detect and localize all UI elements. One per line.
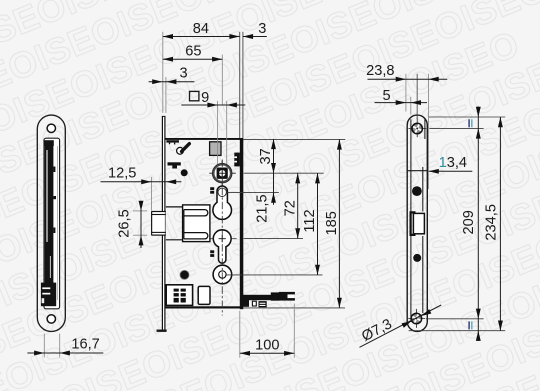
blade highlight small: [50, 256, 51, 278]
svg-text:112: 112: [302, 209, 318, 232]
arrow 185 top: [337, 139, 342, 149]
ext line faceplate left: [162, 32, 164, 113]
ref line donut center: [226, 274, 322, 276]
dim line 72: [297, 173, 299, 238]
arrow II bottom lower: [476, 331, 481, 341]
arrow 234,5 top: [498, 117, 503, 127]
arrow 16,7 right: [60, 351, 70, 356]
arrow 84 left: [163, 34, 173, 39]
ext line 16,7 right: [59, 334, 61, 358]
dim line 16,7: [27, 352, 103, 354]
top screw phillips cross: [411, 123, 423, 135]
svg-text:209: 209: [461, 210, 477, 234]
top screw crosshair h: [408, 128, 426, 130]
sub-bar tick 2: [174, 143, 175, 145]
ref line plate top: [429, 116, 506, 118]
bottom screw center dot: [415, 318, 417, 320]
ext line cable end: [293, 304, 295, 358]
arrow II top lower / 209 top: [476, 128, 481, 138]
lever bar: [182, 144, 190, 152]
ext line case back right: [242, 32, 244, 138]
euro centerline left segment: [209, 238, 214, 240]
svg-text:16,7: 16,7: [71, 336, 99, 352]
plate dot 2: [413, 254, 421, 262]
dim line 3 top: [243, 36, 267, 38]
black dot (spring pivot): [181, 169, 188, 176]
case top sub-bar: [166, 140, 179, 142]
svg-text:234,5: 234,5: [484, 204, 500, 241]
T-shape stem: [172, 166, 177, 169]
euro center cross v: [221, 235, 223, 242]
cutout bracket: [411, 212, 416, 235]
follower hub knurl ring: [214, 165, 231, 182]
dim line 84: [163, 36, 240, 38]
top screw head: [412, 123, 422, 133]
svg-text:5: 5: [382, 88, 390, 104]
T-shape bar: [168, 162, 181, 165]
svg-text:9: 9: [201, 90, 209, 106]
dim line 3 left: [149, 81, 195, 83]
svg-text:13,4: 13,4: [439, 155, 467, 171]
arrow 84 right: [229, 34, 239, 39]
left bottom screw hole: [47, 315, 55, 323]
connector slit 2: [42, 293, 50, 295]
arrow 112 bottom: [315, 265, 320, 275]
arrow 72 bottom: [295, 228, 300, 238]
ext line 16,7 left: [43, 334, 45, 358]
plate dot 1: [412, 186, 422, 196]
case bottom edge: [165, 306, 243, 308]
arrow 12,5 left: [141, 179, 151, 184]
svg-text:26,5: 26,5: [117, 209, 133, 237]
ext line case corner: [239, 311, 241, 358]
dim line 209 column: [477, 107, 479, 342]
dim line 12,5: [101, 181, 182, 183]
slot inner thin line: [57, 146, 59, 300]
arrow 209 bottom: [476, 309, 481, 319]
svg-text:84: 84: [193, 21, 209, 37]
ref line case bottom: [244, 307, 345, 309]
drawing layer: [27, 21, 505, 358]
faceplate front line: [161, 116, 163, 331]
inner rim line left: [410, 119, 412, 322]
arrow 5 left: [396, 100, 406, 105]
arrow 65 left: [163, 57, 173, 62]
ext line hub center top: [221, 55, 223, 105]
arrow 72 top: [295, 173, 300, 183]
blade nub 1: [53, 167, 55, 173]
euro centerline right segment: [231, 238, 236, 240]
faceplate top cap: [162, 115, 166, 117]
arrow 3 top: [243, 34, 253, 39]
follower center cross h: [218, 172, 226, 174]
arrow 23,8 left: [396, 77, 406, 82]
blade nub 3: [53, 228, 55, 234]
svg-text:72: 72: [282, 200, 298, 216]
bottom screw head: [411, 313, 421, 323]
arrow 12,5 right: [166, 179, 176, 184]
latch head top line 1: [152, 211, 166, 213]
pin pair B: [210, 250, 214, 253]
arrow 21,5 bottom (outside): [271, 193, 276, 203]
bottom donut hole: [213, 265, 232, 284]
inner rim line right: [422, 167, 424, 212]
column centerline: [221, 160, 223, 316]
dim line 26,5: [140, 203, 142, 248]
follower center hole: [219, 170, 225, 176]
dim line 65: [163, 58, 223, 60]
comb slit 1: [234, 156, 237, 158]
right faceplate outline: [407, 115, 427, 331]
text block glyphs col1: [174, 289, 179, 292]
arrow 26,5 top: [139, 201, 144, 211]
svg-text:21,5: 21,5: [254, 194, 270, 222]
svg-text:23,8: 23,8: [366, 63, 394, 79]
comb slit 2: [234, 161, 237, 163]
arrow dia bottom-left: [402, 319, 413, 328]
arrow 65 right: [212, 57, 222, 62]
ext line plate right: [428, 74, 430, 189]
svg-text:3: 3: [179, 66, 187, 82]
case interior text block: [166, 285, 192, 306]
ref line top screw center: [429, 127, 483, 129]
pin pair A: [210, 187, 214, 190]
ref line bottom screw center: [426, 318, 484, 320]
ext line case back left: [239, 32, 241, 138]
left inner slot: [44, 138, 60, 309]
cutout inner rect: [413, 213, 424, 233]
dim line 13,4: [429, 170, 473, 172]
ext line latch top: [133, 210, 147, 212]
fork slot 1: [184, 210, 208, 216]
faceplate back line: [164, 116, 166, 331]
blade highlight streak: [46, 150, 47, 242]
arrow 37 top: [271, 139, 276, 149]
arrow 13,4: [429, 169, 439, 174]
follower hub outer ring: [213, 164, 232, 183]
ext line sq9 left: [217, 101, 219, 164]
ref line hub center: [244, 172, 324, 174]
latch fork outer box: [183, 205, 210, 242]
left faceplate outline: [37, 115, 65, 331]
joint line: [407, 170, 428, 172]
case back wall (thick): [240, 138, 244, 309]
svg-text:12,5: 12,5: [108, 166, 136, 182]
terminal notch: [288, 294, 295, 298]
ext line latch bottom: [133, 234, 147, 236]
text block glyphs col2: [181, 289, 186, 292]
latch shaft top line: [166, 206, 183, 208]
ext line rim: [410, 97, 412, 115]
left top screw hole: [47, 124, 55, 132]
lower cable white square: [252, 301, 256, 306]
arrow 112 top: [315, 173, 320, 183]
hub crosshair horizontal: [209, 172, 236, 174]
ext line latch tip: [151, 177, 153, 211]
bottom donut inner: [219, 271, 226, 278]
label sq9 square symbol: [190, 91, 199, 100]
arrow 5 right: [411, 100, 421, 105]
svg-text:100: 100: [255, 338, 279, 354]
arrow 37 bottom: [271, 163, 276, 173]
arrow II top upper: [476, 107, 481, 117]
small screw donut (filled): [180, 270, 189, 279]
fork slot 2: [184, 233, 208, 239]
latch shaft bottom line: [166, 239, 183, 241]
bottom screw crosshair v: [415, 309, 417, 328]
blade nub 2: [53, 196, 56, 199]
latch head bottom line 1: [152, 231, 166, 233]
euro cylinder keyhole: [213, 230, 231, 263]
plug slit 2: [260, 305, 266, 306]
pivot circle: [177, 147, 184, 154]
latch head bottom line 2: [152, 234, 166, 236]
follower square hole: [217, 168, 228, 179]
ext line plate left: [405, 74, 407, 112]
arrow sq9 left: [207, 103, 217, 108]
latch head left edge: [151, 211, 153, 235]
arrow 26,5 bottom: [139, 235, 144, 245]
inner rim line right lower: [422, 236, 424, 313]
arrow sq9 right: [227, 103, 237, 108]
lower cable blob: [240, 300, 249, 307]
dim line 100: [240, 352, 294, 354]
upper cable connector: [271, 292, 279, 300]
svg-text:3: 3: [258, 21, 266, 37]
dim line 23,8: [368, 78, 448, 80]
case top edge: [165, 138, 243, 140]
ref line plate bottom: [409, 330, 506, 332]
svg-text:65: 65: [185, 44, 201, 60]
ref line screw circle center: [227, 192, 279, 194]
connector notch: [42, 298, 45, 303]
white rounded rect (aux hole): [198, 286, 210, 304]
gray square (strike boss): [210, 142, 221, 156]
euro center cross h: [219, 238, 226, 240]
svg-text:185: 185: [324, 211, 340, 235]
fork slots left closure: [183, 210, 185, 239]
ref line case top: [244, 138, 346, 140]
parallel symbol top: [468, 119, 470, 127]
dim line 5: [375, 102, 428, 104]
ext line faceplate back (3 dim): [165, 77, 167, 113]
arrow 16,7 left: [34, 351, 44, 356]
latch head fill: [152, 212, 165, 235]
ext line plate centerline: [416, 74, 418, 119]
follower center cross v: [221, 169, 223, 177]
dim line 112: [317, 173, 319, 275]
keyhole upper (pear, small circle up): [213, 186, 232, 219]
arrow dia top-right: [420, 309, 431, 318]
bottom connector block (side): [41, 283, 56, 307]
latch head top line 2: [152, 214, 166, 216]
bottom screw crosshair h: [408, 318, 425, 320]
dim line 37 / 21,5 column: [273, 139, 275, 205]
svg-text:37: 37: [258, 148, 274, 164]
arrow 3 left b: [166, 79, 176, 84]
fixing screw circle in keyhole neck: [218, 188, 226, 196]
dim line sq9: [181, 104, 245, 106]
arrow 100 left: [240, 351, 250, 356]
top screw center dot: [416, 128, 418, 130]
plug slit 1: [260, 303, 266, 304]
sub-bar tick 1: [169, 143, 170, 145]
hub crosshair vertical: [221, 161, 223, 186]
arrow 100 right: [284, 351, 294, 356]
dim line 234,5: [499, 117, 501, 331]
faceplate strip white core: [162, 116, 166, 331]
parallel symbol bottom: [468, 321, 470, 329]
arrow 3 left a: [152, 79, 162, 84]
faceplate bottom foot: [157, 330, 167, 332]
lock body blade (side) top cap: [44, 140, 53, 146]
upper cable: [243, 295, 272, 300]
ref line euro center: [244, 238, 303, 240]
right wall connector comb: [234, 153, 240, 167]
arrow 185 bottom: [337, 298, 342, 308]
arrow 23,8 right: [429, 77, 439, 82]
lower cable plug: [259, 301, 267, 307]
bottom screw phillips cross: [410, 313, 422, 325]
lock body blade (side): [45, 146, 54, 283]
arrow 234,5 bottom: [498, 321, 503, 331]
dim line 185: [338, 139, 340, 308]
top screw crosshair v: [416, 118, 418, 137]
upper cable terminal: [279, 292, 295, 301]
ext line sq9 right: [226, 101, 228, 164]
inner rim line right top: [424, 119, 426, 139]
leader line dia 7,3: [360, 305, 442, 347]
connector slit 1: [42, 287, 50, 289]
